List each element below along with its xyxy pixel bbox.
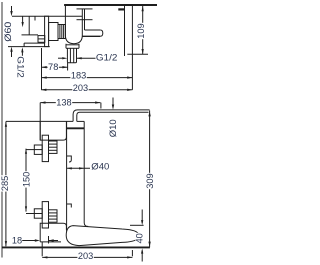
outlet nut right: [78, 44, 80, 49]
bottom tangent line y=46.6: [8, 46, 50, 48]
dim 109: [142, 6, 144, 54]
label Ø60: [4, 21, 12, 42]
outlet nut bottom: [66, 47, 79, 49]
svg-text:203: 203: [73, 83, 88, 93]
dim Ø40: [67, 167, 90, 169]
svg-text:Ø10: Ø10: [108, 119, 118, 137]
handle stem block: [45, 16, 49, 46]
lower nut rib b: [49, 215, 58, 217]
extension line x=42 (lever face): [41, 48, 43, 90]
svg-text:109: 109: [136, 23, 146, 38]
svg-text:183: 183: [71, 71, 86, 81]
nut rib 3: [63, 25, 65, 39]
body step detail upper: [67, 156, 72, 162]
dim 78: [42, 66, 68, 68]
285 top extension + block top: [6, 120, 73, 122]
svg-text:309: 309: [145, 173, 155, 188]
lower nipple mid line: [34, 213, 42, 215]
dim 138: [40, 102, 100, 104]
outlet tube: [67, 48, 76, 63]
svg-text:150: 150: [21, 172, 31, 187]
lower nut rib a: [49, 212, 58, 214]
body step detail lower: [67, 204, 72, 208]
svg-text:Ø40: Ø40: [91, 162, 109, 172]
dim Ø60: [11, 6, 13, 14]
step line y=19.7: [77, 19, 93, 21]
svg-text:Ø60: Ø60: [3, 22, 13, 42]
extension line x=132.4: [131, 5, 133, 90]
bottom view: spout (tapered, rounded ends): [66, 226, 139, 246]
nut rib b: [49, 146, 58, 148]
label 40: [136, 233, 144, 244]
label 78: [48, 63, 59, 71]
label Ø10 with leader: [112, 98, 114, 106]
svg-text:G1/2: G1/2: [96, 52, 118, 62]
lever shaft right vline: [34, 16, 36, 20]
lower escutcheon block: [40, 223, 66, 242]
138 right extension: [100, 103, 102, 109]
label 183: [70, 72, 86, 80]
dim 203 (top view): [41, 89, 132, 91]
upper nipple: [34, 145, 42, 154]
lower flange disc: [42, 202, 48, 228]
svg-text:138: 138: [56, 97, 71, 107]
bottom thick extension line: [2, 246, 150, 248]
label 150: [23, 171, 31, 187]
label G1/2 left with leader: [21, 49, 23, 56]
svg-text:203: 203: [78, 251, 93, 261]
lever shaft left vline: [28, 16, 30, 35]
cartridge nut block: [58, 25, 65, 39]
body left edge: [66, 121, 68, 231]
203 left extension: [41, 242, 43, 256]
outlet nut left: [65, 44, 67, 49]
outlet nut mid line: [66, 44, 79, 46]
grip knob mid line: [38, 38, 45, 40]
138 left extension / block left edge: [39, 103, 41, 141]
18 right extension: [48, 236, 50, 244]
dim 150: [25, 149, 27, 212]
150 bottom extension: [26, 213, 34, 215]
lower nipple: [34, 209, 42, 218]
lever arm bottom line: [24, 42, 44, 44]
top view: wall face line: [124, 5, 126, 56]
label 138: [56, 98, 72, 106]
pipe outer line: [73, 110, 150, 122]
svg-text:G1/2: G1/2: [16, 56, 26, 78]
step line y=8.9: [77, 8, 93, 10]
lever grip knob: [38, 36, 45, 43]
label 285: [1, 175, 9, 191]
109 bottom extension: [127, 53, 148, 55]
label 203 bottom: [77, 252, 93, 260]
label 109: [137, 23, 145, 39]
outlet tube rib 1: [69, 48, 71, 63]
top view: body (U shape): [65, 9, 82, 44]
nut rib 1: [59, 25, 61, 39]
svg-text:285: 285: [0, 176, 10, 191]
203 right extension: [131, 250, 133, 256]
dim 18: [22, 240, 37, 242]
upper union nut: [49, 141, 58, 153]
lower union nut: [49, 210, 58, 222]
lower nut rib c: [49, 218, 58, 220]
outlet tube rib 2: [73, 48, 75, 63]
upper flange disc: [42, 135, 48, 161]
dim 183: [42, 77, 133, 79]
78 right extension: [67, 63, 69, 71]
svg-text:40: 40: [134, 233, 144, 243]
down arrow at lever tip: [22, 22, 24, 27]
pipe inner line: [77, 112, 149, 121]
40 top extension: [130, 224, 144, 226]
stub bottom line y=36.3: [82, 35, 100, 37]
top tangent line y=16.2: [12, 15, 82, 17]
150 top extension: [26, 149, 34, 151]
body right edge curving into spout: [84, 121, 88, 226]
dim 40: [141, 210, 143, 223]
nut rib 2: [61, 25, 63, 39]
upper nipple mid line: [34, 149, 42, 151]
label 203 top: [72, 84, 88, 92]
wall coupling thick dash: [118, 8, 124, 10]
handle mid block: [49, 23, 58, 41]
body left extension to top line: [64, 5, 66, 16]
lower block bottom: [40, 241, 61, 243]
lever arm top line: [22, 34, 39, 36]
label 309: [146, 173, 154, 189]
lever arm end vline: [23, 43, 25, 47]
label G1/2 left: [17, 56, 25, 79]
nut rib a: [49, 143, 58, 145]
step vline x=84.5: [84, 9, 86, 30]
dim G1/2 (outlet): [58, 57, 62, 59]
stub rounded end: [100, 30, 103, 36]
nut rib c: [49, 149, 58, 151]
frame left border line: [1, 2, 3, 258]
stub top y=30: [85, 29, 101, 31]
small leader stem at lever tip: [22, 16, 24, 24]
upper escutcheon block: [40, 121, 66, 140]
svg-text:78: 78: [48, 62, 58, 72]
body joint thick line: [67, 127, 85, 129]
dim 285: [5, 122, 7, 247]
top view: thick top reference line (pipe into wall): [64, 4, 157, 6]
dim 309: [149, 111, 151, 248]
svg-text:18: 18: [12, 235, 22, 245]
